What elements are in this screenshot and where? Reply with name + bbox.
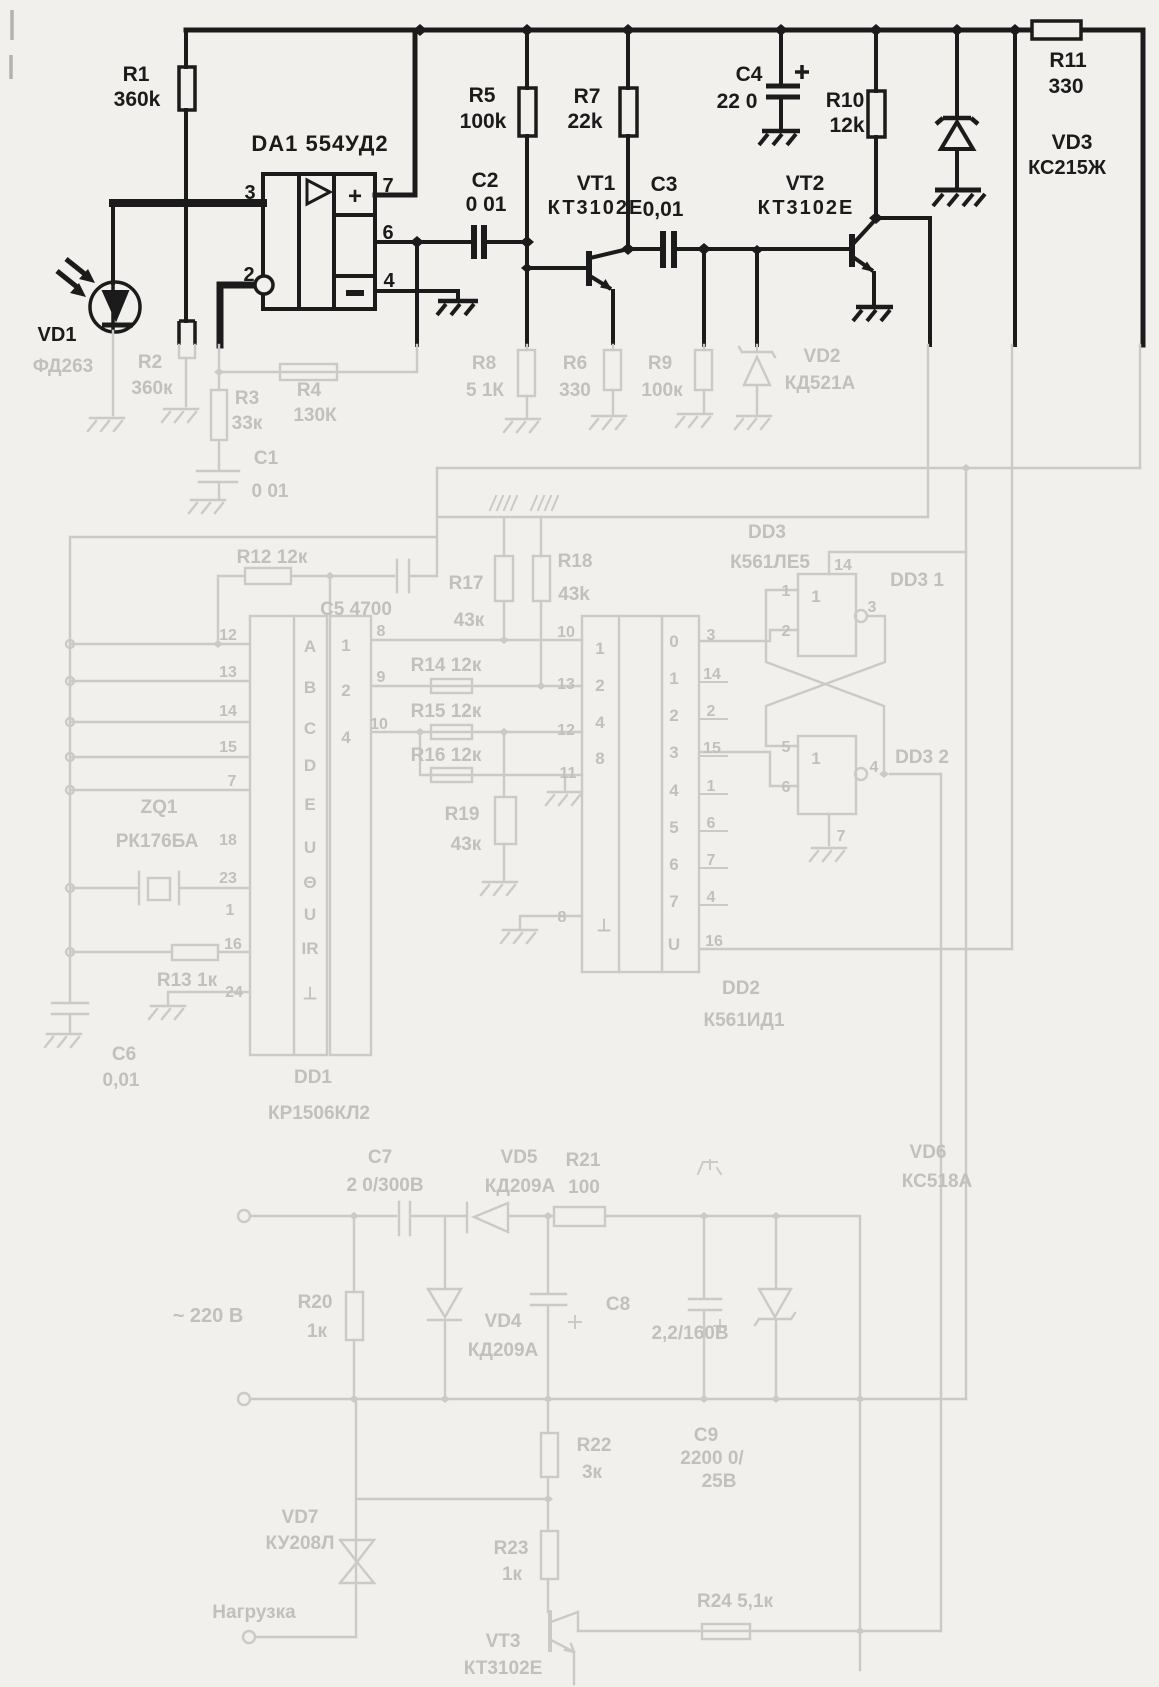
resistor R7 xyxy=(620,88,637,136)
svg-text:4: 4 xyxy=(383,270,395,292)
svg-text:R10: R10 xyxy=(826,89,865,112)
resistor R14 xyxy=(431,679,472,693)
svg-text:C6: C6 xyxy=(112,1044,136,1065)
svg-text:1: 1 xyxy=(782,583,791,600)
junction R19 row xyxy=(503,732,505,880)
svg-text:25В: 25В xyxy=(702,1471,737,1492)
resistor R16 xyxy=(431,768,472,782)
capacitor C7 xyxy=(399,1202,467,1235)
svg-text:43к: 43к xyxy=(454,610,485,631)
junction R17 row xyxy=(499,636,509,644)
svg-text:7: 7 xyxy=(228,773,237,790)
ground VD1 xyxy=(88,418,124,431)
svg-text:1: 1 xyxy=(595,639,604,658)
svg-text:12: 12 xyxy=(219,627,237,644)
junction R18 row xyxy=(536,682,546,690)
junction pin7 rail xyxy=(413,24,427,36)
ground R9 xyxy=(676,414,712,427)
svg-text:14: 14 xyxy=(219,703,237,720)
svg-text:DD1: DD1 xyxy=(294,1067,332,1088)
transistor VT3 xyxy=(548,1612,552,1650)
svg-text:43k: 43k xyxy=(558,584,590,605)
svg-text:VD3: VD3 xyxy=(1052,131,1093,154)
svg-text:18: 18 xyxy=(219,832,237,849)
IC DD2 box xyxy=(582,616,662,972)
svg-text:5: 5 xyxy=(669,818,678,837)
svg-text:360k: 360k xyxy=(114,88,161,111)
junction R1 input node xyxy=(185,202,187,204)
svg-text:1к: 1к xyxy=(307,1321,328,1342)
IC DD1 box xyxy=(250,616,327,1055)
svg-text:КУ208Л: КУ208Л xyxy=(266,1533,335,1554)
svg-text:R19: R19 xyxy=(445,804,480,825)
hatch marks xyxy=(490,496,517,510)
svg-text:8: 8 xyxy=(558,909,567,926)
svg-text:VT1: VT1 xyxy=(577,172,616,195)
wire VD1 cathode down xyxy=(112,331,114,415)
resistor R23 xyxy=(541,1531,558,1579)
svg-text:130К: 130К xyxy=(293,405,337,426)
svg-text:КС215Ж: КС215Ж xyxy=(1028,157,1107,179)
svg-text:Θ: Θ xyxy=(303,873,316,892)
svg-text:DD3 1: DD3 1 xyxy=(890,570,944,591)
capacitor C1 xyxy=(197,471,239,498)
wire bus +V xyxy=(437,467,1140,469)
svg-text:R1: R1 xyxy=(123,63,150,86)
wire VD3 rail to DD2 pin16 xyxy=(1011,345,1013,949)
svg-text:3: 3 xyxy=(868,599,877,616)
svg-text:C1: C1 xyxy=(254,448,279,469)
svg-text:0,01: 0,01 xyxy=(643,198,684,221)
svg-text:9: 9 xyxy=(377,669,386,686)
svg-text:R12 12к: R12 12к xyxy=(237,547,308,568)
wire right edge down to bus xyxy=(1139,345,1141,468)
ground C1 xyxy=(189,500,225,513)
svg-text:DD3 2: DD3 2 xyxy=(895,747,949,768)
wire VD1 anode xyxy=(111,203,115,283)
svg-text:D: D xyxy=(304,756,316,775)
svg-text:R3: R3 xyxy=(235,388,259,409)
junction VT2 collector xyxy=(876,218,930,345)
op-amp DA1 554UD2 xyxy=(255,174,375,309)
svg-text:0 01: 0 01 xyxy=(466,193,507,216)
svg-text:РК176БА: РК176БА xyxy=(116,831,199,852)
wire branch to gate1 pin14 xyxy=(829,552,966,574)
junction VD6 top xyxy=(755,1216,795,1399)
svg-text:КС518А: КС518А xyxy=(902,1171,973,1192)
ground R6 xyxy=(590,416,626,429)
junction VD4 bottom xyxy=(440,1395,450,1403)
resistor R3 xyxy=(211,390,227,440)
resistor R5 xyxy=(519,88,536,136)
capacitor C2 xyxy=(474,225,484,259)
wire pin6 to C2 xyxy=(375,240,527,244)
svg-text:0 01: 0 01 xyxy=(252,481,289,502)
svg-text:12: 12 xyxy=(557,722,575,739)
svg-text:3к: 3к xyxy=(582,1462,603,1483)
svg-text:R23: R23 xyxy=(494,1538,529,1559)
resistor R13 xyxy=(70,951,250,953)
svg-text:C7: C7 xyxy=(368,1147,392,1168)
junction C3 out xyxy=(704,249,850,345)
svg-text:К561ИД1: К561ИД1 xyxy=(703,1010,784,1031)
svg-text:U: U xyxy=(304,838,316,857)
svg-text:8: 8 xyxy=(377,623,386,640)
resistor R6 xyxy=(612,345,614,415)
wire pin4 xyxy=(375,291,458,300)
junction R12 pin12 xyxy=(213,640,223,648)
svg-text:7: 7 xyxy=(669,892,678,911)
node pin2/R4/R3 xyxy=(218,345,220,390)
svg-text:КТ3102Е: КТ3102Е xyxy=(464,1658,543,1679)
junction R20 bottom xyxy=(349,1395,359,1403)
junction VD2 node xyxy=(751,245,763,255)
junction right rail bottom xyxy=(855,1395,865,1403)
svg-text:R5: R5 xyxy=(469,84,496,107)
transistor VT1 xyxy=(589,249,628,345)
svg-text:6: 6 xyxy=(782,779,791,796)
terminal load xyxy=(243,1631,255,1643)
junction DD1 osc in xyxy=(329,576,331,616)
svg-text:КТ3102Е: КТ3102Е xyxy=(548,197,645,219)
junction R11 rail xyxy=(1013,30,1017,345)
svg-text:12k: 12k xyxy=(829,114,864,137)
svg-text:22k: 22k xyxy=(567,110,602,133)
junction dots top rail xyxy=(179,24,1022,273)
svg-text:5 1К: 5 1К xyxy=(466,380,504,401)
ground VD2 xyxy=(735,416,771,429)
triac VD7 xyxy=(355,1399,357,1637)
junction C9 bottom xyxy=(699,1395,709,1403)
junction VD6 bottom xyxy=(771,1395,781,1403)
svg-text:2: 2 xyxy=(243,264,254,286)
wire bus signal xyxy=(437,516,928,518)
svg-text:VD2: VD2 xyxy=(804,346,841,367)
svg-text:⊥: ⊥ xyxy=(303,984,318,1003)
junction R3 R4 node xyxy=(219,345,417,372)
wire thick input to pin3 xyxy=(113,199,263,207)
svg-text:2 0/300В: 2 0/300В xyxy=(346,1175,423,1196)
svg-text:C: C xyxy=(304,719,316,738)
wire node column xyxy=(436,468,438,576)
svg-text:2: 2 xyxy=(669,706,678,725)
svg-text:4: 4 xyxy=(707,889,716,906)
diode VD2 xyxy=(739,345,775,415)
junction supply bus xyxy=(965,468,967,1399)
svg-text:R2: R2 xyxy=(138,352,162,373)
svg-text:DA1 554УД2: DA1 554УД2 xyxy=(251,131,388,156)
resistor R2 (fade boundary crosses body) xyxy=(179,321,195,345)
resistor R17 xyxy=(503,517,505,640)
crystal ZQ1 xyxy=(70,872,250,904)
resistor R11 horizontal xyxy=(1032,21,1081,39)
svg-text:330: 330 xyxy=(559,380,591,401)
svg-text:7: 7 xyxy=(837,828,846,845)
svg-text:C8: C8 xyxy=(606,1294,630,1315)
svg-text:100к: 100к xyxy=(641,380,683,401)
capacitor C5 xyxy=(397,560,437,592)
svg-text:4: 4 xyxy=(669,781,679,800)
svg-text:16: 16 xyxy=(224,936,242,953)
svg-text:КД209А: КД209А xyxy=(485,1176,556,1197)
svg-text:IR: IR xyxy=(302,939,319,958)
junction R20 top xyxy=(353,1216,355,1399)
junction VT1 collector xyxy=(628,247,704,251)
svg-text:R14 12к: R14 12к xyxy=(411,655,482,676)
wire bus oscillator xyxy=(70,537,437,1003)
resistor R8 xyxy=(526,345,528,418)
svg-text:C4: C4 xyxy=(736,63,763,86)
svg-text:⊥: ⊥ xyxy=(597,916,612,935)
junction R5 rail xyxy=(525,30,529,345)
svg-text:C9: C9 xyxy=(694,1425,718,1446)
svg-text:E: E xyxy=(304,795,315,814)
transistor VT2 xyxy=(852,219,893,321)
junction R7 rail xyxy=(626,30,630,249)
faded text labels xyxy=(33,346,973,1679)
terminal input bottom xyxy=(238,1393,250,1405)
junction DD3.2 out xyxy=(879,770,889,778)
light arrows xyxy=(57,259,86,287)
resistor R10 xyxy=(868,91,885,137)
svg-text:~ 220 В: ~ 220 В xyxy=(173,1305,244,1327)
svg-text:R7: R7 xyxy=(574,85,601,108)
svg-text:C2: C2 xyxy=(472,169,499,192)
svg-text:R13 1к: R13 1к xyxy=(157,970,218,991)
svg-text:К561ЛЕ5: К561ЛЕ5 xyxy=(730,552,810,573)
svg-text:24: 24 xyxy=(225,984,243,1001)
svg-text:2: 2 xyxy=(707,703,716,720)
svg-text:16: 16 xyxy=(705,933,723,950)
svg-text:10: 10 xyxy=(557,624,575,641)
svg-text:VD4: VD4 xyxy=(485,1311,522,1332)
svg-text:R11: R11 xyxy=(1049,49,1087,72)
svg-text:3: 3 xyxy=(244,182,255,204)
svg-text:R4: R4 xyxy=(297,380,322,401)
svg-text:3: 3 xyxy=(707,627,716,644)
junction C8 top xyxy=(531,1216,566,1399)
junction VT1 base xyxy=(527,266,586,270)
svg-text:VD5: VD5 xyxy=(501,1147,538,1168)
resistor R18 xyxy=(540,517,542,686)
svg-text:2: 2 xyxy=(595,676,604,695)
ground pin4 xyxy=(437,301,478,315)
svg-text:VT2: VT2 xyxy=(786,172,825,195)
svg-text:100: 100 xyxy=(568,1177,600,1198)
svg-text:VT3: VT3 xyxy=(486,1631,521,1652)
svg-text:33к: 33к xyxy=(232,413,263,434)
svg-text:8: 8 xyxy=(595,749,604,768)
svg-text:100k: 100k xyxy=(460,110,507,133)
wire pin24 to ground xyxy=(168,992,250,1004)
svg-text:2: 2 xyxy=(341,681,350,700)
svg-text:3: 3 xyxy=(669,743,678,762)
terminal input top xyxy=(238,1210,250,1222)
junction R22 R23 gate xyxy=(356,1498,548,1500)
svg-text:С5 4700: С5 4700 xyxy=(320,599,392,620)
svg-text:1: 1 xyxy=(341,636,350,655)
svg-text:R17: R17 xyxy=(449,573,484,594)
photodiode VD1 xyxy=(57,259,140,332)
node junctions xyxy=(179,197,193,209)
wire DD2 U row xyxy=(699,948,1012,950)
svg-text:R20: R20 xyxy=(298,1292,333,1313)
svg-text:R18: R18 xyxy=(558,551,593,572)
resistor R2 faded bottom xyxy=(179,345,195,406)
diode VD5 xyxy=(467,1203,554,1232)
svg-text:DD3: DD3 xyxy=(748,522,786,543)
svg-text:4: 4 xyxy=(870,759,879,776)
corner artifacts xyxy=(11,10,12,79)
svg-text:ФД263: ФД263 xyxy=(33,356,94,377)
svg-text:1: 1 xyxy=(226,902,235,919)
ground R8 xyxy=(504,419,540,432)
wire pin7 xyxy=(375,30,415,195)
svg-text:VD6: VD6 xyxy=(910,1142,947,1163)
junction C8 bottom xyxy=(547,1399,549,1531)
junction pin6 node xyxy=(415,242,419,345)
capacitor C3 xyxy=(663,231,674,268)
junction C9 top xyxy=(689,1216,721,1399)
svg-text:15: 15 xyxy=(219,739,237,756)
svg-text:R21: R21 xyxy=(566,1150,601,1171)
ground pin11 xyxy=(564,775,566,790)
svg-text:360к: 360к xyxy=(131,378,173,399)
svg-text:6: 6 xyxy=(707,815,716,832)
capacitor C6 xyxy=(52,1003,88,1032)
mark near C9 top xyxy=(698,1160,721,1174)
resistor R9 xyxy=(703,345,705,413)
wire top rail xyxy=(186,28,1143,33)
wire gate2 out net xyxy=(940,774,942,1631)
svg-text:13: 13 xyxy=(219,664,237,681)
svg-text:2,2/160В: 2,2/160В xyxy=(651,1323,728,1344)
svg-text:2: 2 xyxy=(782,623,791,640)
svg-text:2200 0/: 2200 0/ xyxy=(680,1448,744,1469)
ground R2 xyxy=(162,409,198,422)
svg-text:0: 0 xyxy=(669,632,678,651)
svg-text:15: 15 xyxy=(703,740,721,757)
svg-text:11: 11 xyxy=(560,765,577,782)
svg-text:22 0: 22 0 xyxy=(717,90,758,113)
svg-text:КТ3102Е: КТ3102Е xyxy=(758,197,855,219)
svg-text:+: + xyxy=(348,183,362,210)
svg-text:7: 7 xyxy=(707,852,716,869)
resistor R12 xyxy=(218,576,394,644)
svg-text:14: 14 xyxy=(703,666,721,683)
svg-text:КР1506КЛ2: КР1506КЛ2 xyxy=(268,1103,370,1124)
svg-text:Нагрузка: Нагрузка xyxy=(212,1602,296,1623)
diode VD4 xyxy=(428,1216,461,1399)
svg-text:R22: R22 xyxy=(577,1435,612,1456)
svg-text:1: 1 xyxy=(669,669,678,688)
svg-text:R16 12к: R16 12к xyxy=(411,745,482,766)
svg-text:7: 7 xyxy=(382,175,393,197)
svg-text:U: U xyxy=(304,905,316,924)
svg-text:6: 6 xyxy=(382,222,393,244)
junction R10 rail xyxy=(874,30,878,218)
svg-text:10: 10 xyxy=(370,716,388,733)
wire DD1 input rows xyxy=(70,644,250,790)
svg-text:R8: R8 xyxy=(472,353,496,374)
svg-text:U: U xyxy=(668,935,680,954)
svg-text:A: A xyxy=(304,637,316,656)
wire pin2 thick xyxy=(220,285,255,345)
svg-text:1: 1 xyxy=(811,587,820,606)
svg-text:B: B xyxy=(304,678,316,697)
svg-text:VD7: VD7 xyxy=(282,1507,319,1528)
svg-text:R15 12к: R15 12к xyxy=(411,701,482,722)
svg-text:4: 4 xyxy=(595,713,605,732)
svg-text:23: 23 xyxy=(219,870,237,887)
svg-text:R9: R9 xyxy=(648,353,672,374)
ground DD2 pin8 xyxy=(520,916,582,928)
junction VD3 rail xyxy=(955,30,959,190)
resistor R15 xyxy=(431,725,472,739)
resistor R24 xyxy=(578,1630,941,1632)
svg-text:КД209А: КД209А xyxy=(468,1340,539,1361)
svg-text:330: 330 xyxy=(1048,75,1083,98)
svg-text:R6: R6 xyxy=(563,353,587,374)
wire VT2 out column xyxy=(927,345,929,517)
svg-text:13: 13 xyxy=(557,676,575,693)
svg-text:VD1: VD1 xyxy=(38,324,77,346)
svg-text:1: 1 xyxy=(811,749,820,768)
svg-text:ZQ1: ZQ1 xyxy=(141,797,178,818)
svg-text:1: 1 xyxy=(707,778,716,795)
gate DD3.2 xyxy=(798,736,856,814)
wire left branch down from rail xyxy=(184,30,188,203)
capacitor C4 polarized xyxy=(759,65,809,145)
svg-text:6: 6 xyxy=(669,855,678,874)
junction C4 rail xyxy=(779,30,783,131)
junction R16 tap xyxy=(415,728,425,736)
svg-text:R24 5,1к: R24 5,1к xyxy=(697,1591,774,1612)
svg-text:43к: 43к xyxy=(451,834,482,855)
wire R2 column xyxy=(184,203,188,321)
DD2 right pin stubs xyxy=(701,682,727,905)
svg-text:14: 14 xyxy=(834,557,852,574)
wire DD1 out rows xyxy=(371,640,582,775)
svg-text:1к: 1к xyxy=(502,1564,523,1585)
wire right edge column xyxy=(1141,30,1146,345)
svg-text:C3: C3 xyxy=(651,173,678,196)
resistor R1 xyxy=(179,67,195,110)
svg-text:4: 4 xyxy=(341,728,351,747)
DD1 letters xyxy=(302,587,821,1003)
resistor R21 xyxy=(554,1207,605,1226)
svg-text:0,01: 0,01 xyxy=(103,1070,140,1091)
gate DD3.1 xyxy=(798,574,856,656)
junction C2 R5 xyxy=(520,236,534,248)
svg-text:КД521А: КД521А xyxy=(785,373,856,394)
junction dots faded xyxy=(213,368,971,1635)
junction R24 cross xyxy=(855,1627,865,1635)
DD1/DD2 pin numbers xyxy=(219,557,878,1001)
zener diode (VD3) xyxy=(933,118,985,206)
svg-text:5: 5 xyxy=(782,739,791,756)
svg-text:DD2: DD2 xyxy=(722,978,760,999)
